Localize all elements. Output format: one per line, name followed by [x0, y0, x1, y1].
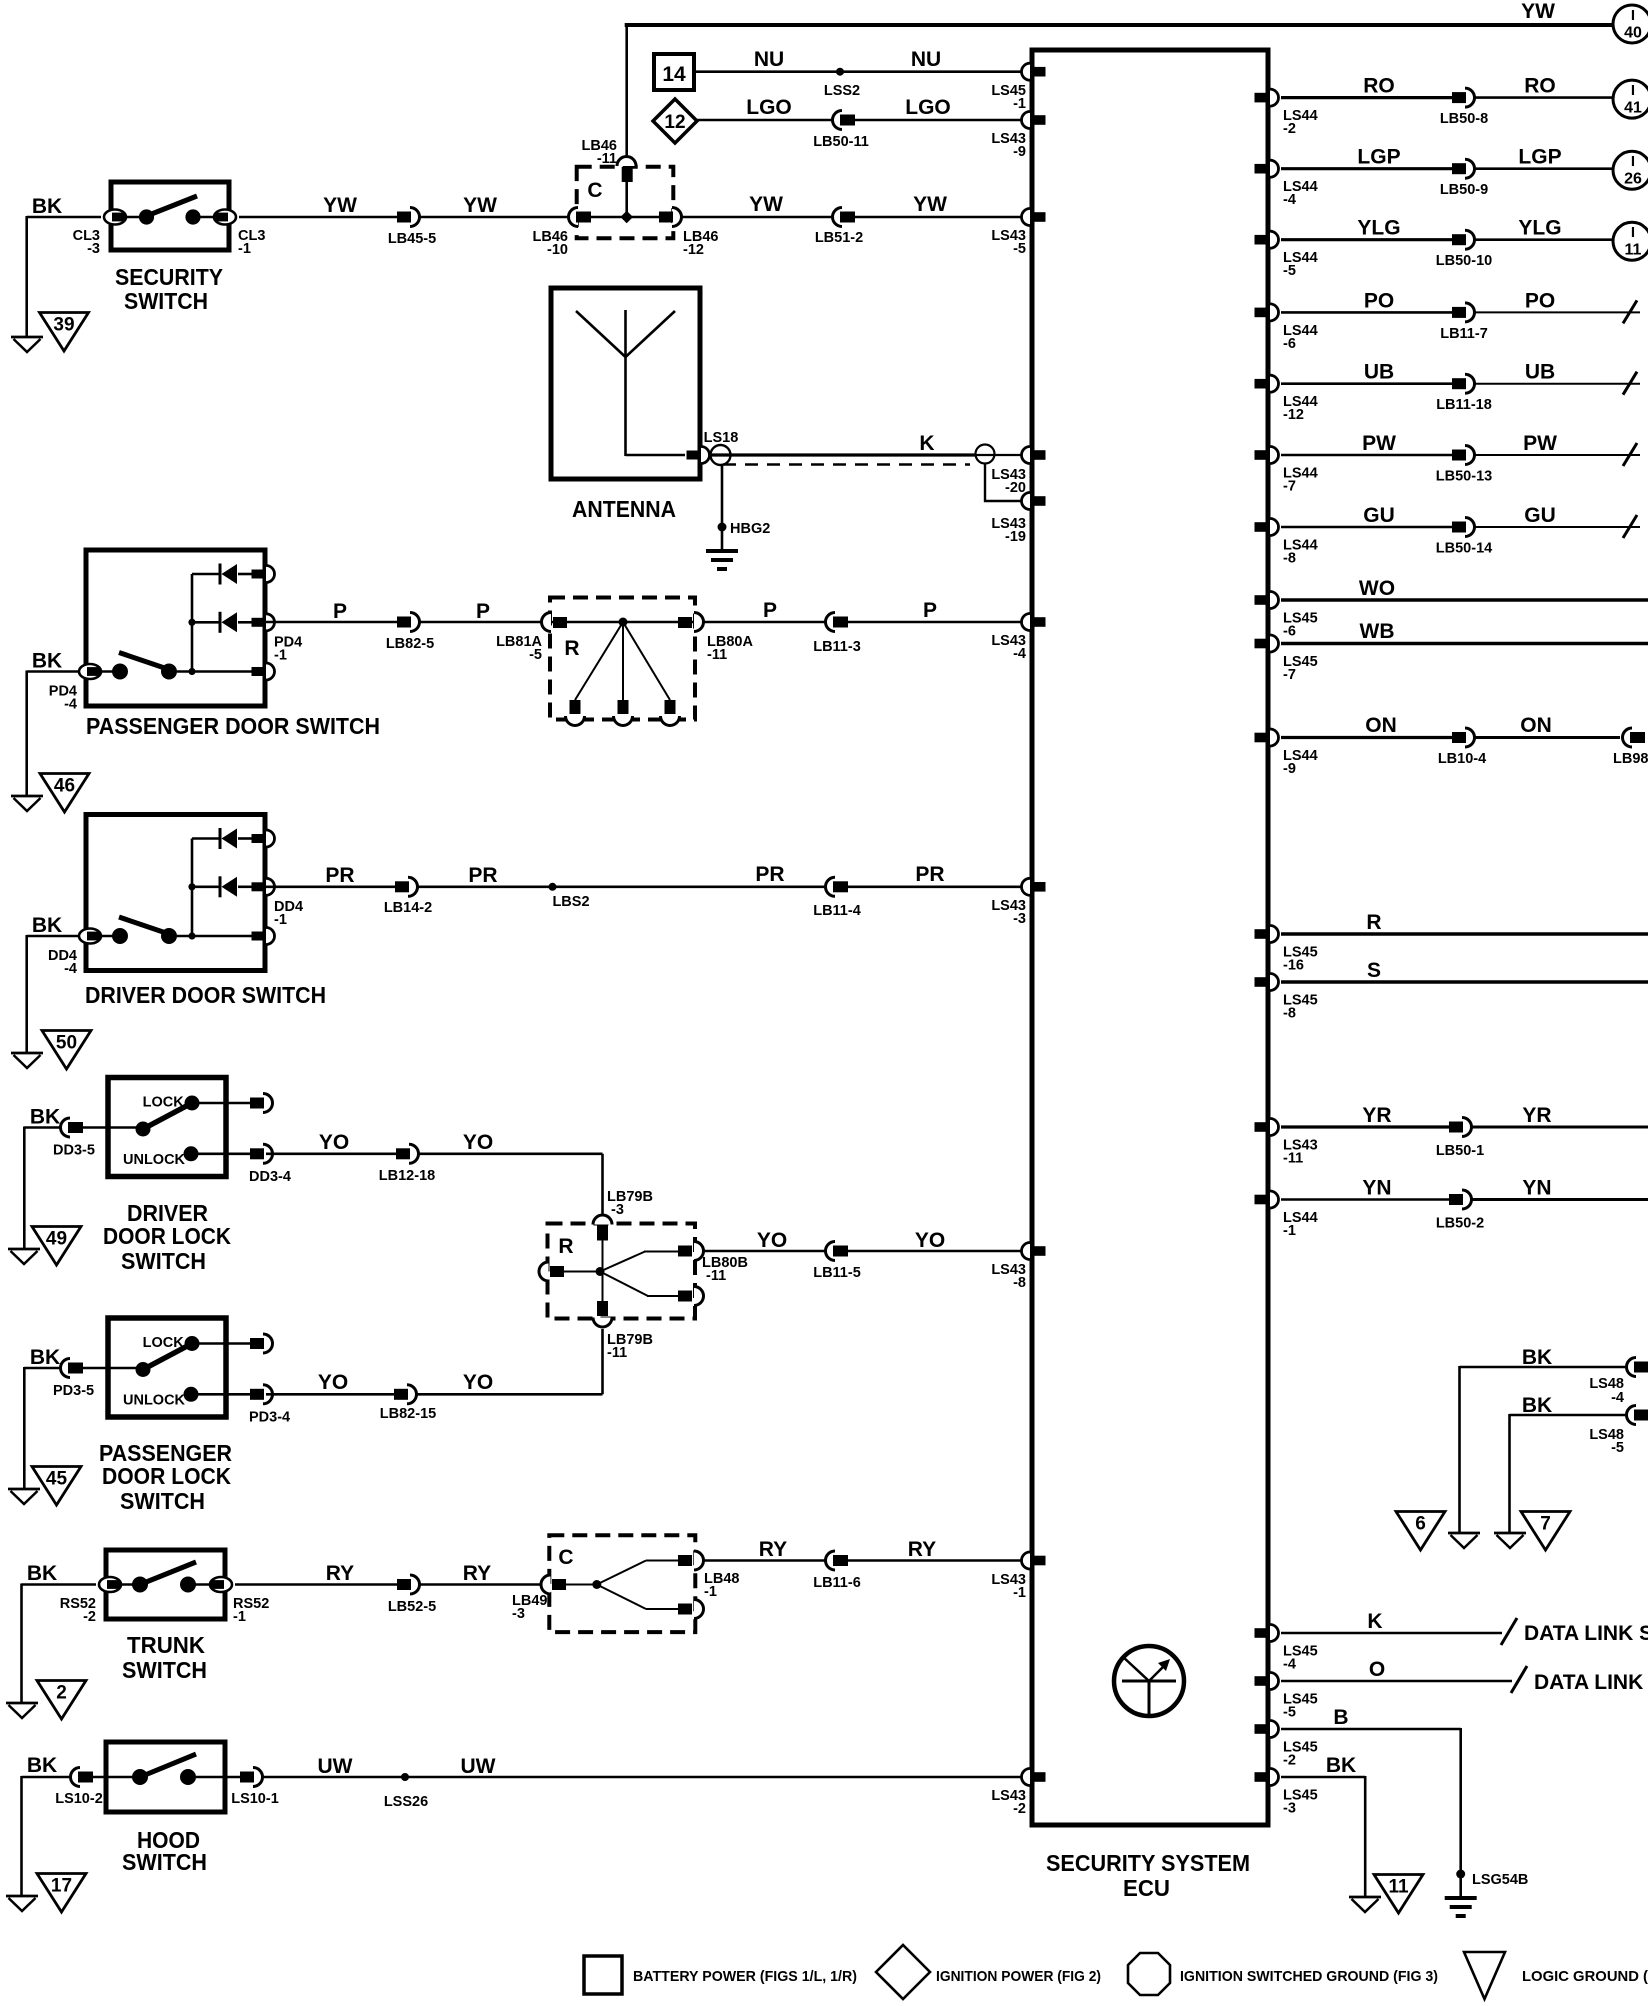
pin LS43-1 — [991, 1552, 1045, 1601]
junction in R box — [619, 618, 628, 627]
pin LS44-5 — [1255, 231, 1318, 279]
svg-text:-3: -3 — [1013, 911, 1026, 927]
pin LS45-1 — [991, 63, 1045, 112]
svg-text:12: 12 — [664, 112, 685, 133]
connector LB82-5 — [386, 613, 434, 653]
legend logic ground text — [1522, 1968, 1648, 1985]
junction in C box — [620, 211, 633, 224]
svg-text:-5: -5 — [529, 647, 542, 663]
connector LB14-2 — [384, 877, 432, 916]
connector LB11-18 — [1436, 374, 1492, 413]
connector LB98 — [1613, 728, 1648, 767]
driver door switch box — [86, 815, 265, 971]
pin LS44-2 — [1255, 89, 1318, 137]
svg-text:14: 14 — [662, 63, 686, 86]
svg-text:SWITCH: SWITCH — [122, 1657, 207, 1683]
splice LSS26 — [384, 1773, 428, 1810]
connector LB50-9 — [1440, 159, 1488, 198]
svg-text:-2: -2 — [1013, 1801, 1026, 1817]
connector LB50-1 — [1436, 1118, 1484, 1160]
wire GU 2 off-page — [1474, 504, 1640, 538]
svg-text:UNLOCK: UNLOCK — [123, 1392, 186, 1408]
svg-text:PO: PO — [1525, 289, 1555, 312]
svg-text:BK: BK — [30, 1106, 60, 1129]
svg-text:UW: UW — [318, 1755, 353, 1778]
svg-text:LBS2: LBS2 — [552, 894, 589, 910]
svg-text:-3: -3 — [512, 1606, 525, 1622]
svg-text:LB11-6: LB11-6 — [813, 1575, 861, 1591]
label HOOD SWITCH — [122, 1827, 207, 1875]
wire PW 2 off-page — [1474, 432, 1640, 466]
svg-text:NU: NU — [754, 48, 784, 71]
wire BK security switch — [27, 195, 101, 337]
diode PD upper — [220, 564, 237, 585]
connector LB10-4 — [1438, 728, 1486, 767]
logic ground 17 — [37, 1874, 86, 1913]
pin LS44-6 — [1255, 304, 1318, 352]
connector LB50-10 — [1436, 230, 1492, 269]
svg-text:BK: BK — [1326, 1754, 1356, 1777]
connector C box LB46 — [577, 167, 674, 239]
legend ignition power text — [936, 1968, 1101, 1985]
legend ignition switched ground text — [1180, 1968, 1438, 1985]
svg-text:LB52-5: LB52-5 — [388, 1599, 436, 1615]
wire RO 2 — [1474, 75, 1613, 98]
svg-text:HBG2: HBG2 — [730, 521, 770, 537]
svg-text:O: O — [1369, 1658, 1385, 1681]
pin LS43-8 — [991, 1243, 1045, 1292]
svg-text:R: R — [564, 637, 579, 660]
wire PR to ECU — [266, 863, 1029, 887]
pin DD4-4 — [48, 929, 101, 978]
diode DD lower — [220, 876, 237, 897]
hood switch box — [92, 1742, 240, 1812]
svg-text:PD3-4: PD3-4 — [249, 1409, 290, 1425]
svg-text:DOOR LOCK: DOOR LOCK — [102, 1463, 231, 1489]
pin PD4-1 — [252, 566, 275, 583]
diode DD upper — [220, 828, 237, 849]
connector LB11-3 — [813, 613, 861, 656]
svg-text:LB11-4: LB11-4 — [813, 903, 861, 919]
svg-text:-1: -1 — [238, 241, 251, 257]
svg-text:LB50-9: LB50-9 — [1440, 182, 1488, 198]
diode PD lower — [220, 612, 237, 633]
pin LS43-20 — [991, 447, 1045, 497]
wire antenna ground HBG2 — [718, 466, 771, 551]
pin LS45-4 — [1255, 1625, 1318, 1673]
svg-text:BK: BK — [27, 1754, 57, 1777]
svg-text:LB50-10: LB50-10 — [1436, 253, 1492, 269]
pin LS43-5 — [991, 209, 1045, 258]
svg-text:-3: -3 — [611, 1202, 624, 1218]
svg-text:I: I — [1631, 82, 1635, 99]
legend ignition switched ground symbol — [1128, 1953, 1170, 1995]
pin LS43-19 — [991, 493, 1045, 546]
splice LBS2 — [549, 883, 590, 910]
svg-text:RY: RY — [326, 1562, 354, 1585]
svg-text:LB12-18: LB12-18 — [379, 1168, 435, 1184]
svg-text:YW: YW — [463, 194, 497, 217]
R box fan wires — [575, 622, 670, 700]
svg-text:41: 41 — [1624, 100, 1642, 117]
svg-text:LB11-7: LB11-7 — [1440, 326, 1488, 342]
svg-text:YW: YW — [749, 193, 783, 216]
ground — [11, 337, 43, 352]
svg-text:-5: -5 — [1611, 1440, 1624, 1456]
pin LS48-4 — [1589, 1358, 1648, 1407]
svg-text:-4: -4 — [64, 697, 77, 713]
pin LS45-8 — [1255, 974, 1318, 1022]
svg-text:DATA LINK S: DATA LINK S — [1534, 1671, 1648, 1694]
pin LS43-2 — [991, 1769, 1045, 1818]
R box bottom pins — [566, 700, 680, 726]
ground — [8, 1249, 40, 1264]
svg-text:UW: UW — [461, 1755, 496, 1778]
svg-text:-3: -3 — [1283, 1801, 1296, 1817]
wire YO driver lock — [266, 1131, 603, 1215]
node LS18 — [704, 430, 739, 465]
svg-text:LGP: LGP — [1357, 146, 1400, 169]
legend ignition power symbol — [876, 1945, 930, 1999]
lock pin — [250, 1094, 273, 1113]
svg-text:DATA LINK SI: DATA LINK SI — [1524, 1622, 1648, 1645]
svg-text:LSS26: LSS26 — [384, 1794, 428, 1810]
pin PD4-4 — [49, 664, 101, 713]
svg-text:-20: -20 — [1005, 480, 1026, 496]
pin LS18 — [687, 447, 710, 464]
svg-text:LOGIC GROUND (: LOGIC GROUND ( — [1522, 1968, 1648, 1985]
svg-text:C: C — [558, 1546, 573, 1569]
wire YW top feed to I-40 — [625, 0, 1613, 161]
pin PD3-5 — [53, 1359, 94, 1400]
connector LB50-2 — [1436, 1190, 1484, 1232]
legend logic ground symbol — [1464, 1952, 1505, 1999]
svg-text:DD3-5: DD3-5 — [53, 1143, 95, 1159]
svg-text:-8: -8 — [1013, 1275, 1026, 1291]
pin LS43-3 — [991, 878, 1045, 927]
svg-text:-11: -11 — [597, 151, 617, 167]
pin LS45-7 — [1255, 635, 1318, 683]
svg-text:-6: -6 — [1283, 336, 1296, 352]
svg-text:2: 2 — [56, 1683, 67, 1704]
pin LS10-2 — [55, 1768, 103, 1808]
pin LS44-4 — [1255, 160, 1318, 208]
wire YW security switch to ECU — [239, 193, 1029, 217]
logic ground 6 — [1396, 1512, 1445, 1551]
svg-text:-9: -9 — [1013, 144, 1026, 160]
svg-text:-12: -12 — [683, 242, 704, 258]
svg-text:P: P — [476, 600, 490, 623]
wire BK trunk — [22, 1562, 97, 1702]
unlock pin PD3-4 — [249, 1385, 290, 1426]
trunk C box internal wires — [566, 1561, 679, 1610]
lock switch box — [77, 1078, 251, 1177]
svg-text:LGO: LGO — [746, 96, 792, 119]
svg-text:YO: YO — [463, 1371, 493, 1394]
connector LB50-11 — [813, 111, 869, 151]
svg-text:BK: BK — [32, 914, 62, 937]
pin LB48-1 — [678, 1551, 739, 1600]
ground — [6, 1703, 38, 1718]
wire WB — [1281, 620, 1648, 644]
svg-text:40: 40 — [1624, 25, 1642, 42]
svg-text:SWITCH: SWITCH — [122, 1849, 207, 1875]
logic ground 49 — [32, 1227, 81, 1266]
pin LS43-4 — [991, 614, 1045, 663]
wire UB 2 off-page — [1474, 361, 1640, 395]
svg-text:YLG: YLG — [1518, 217, 1561, 240]
svg-text:YW: YW — [1521, 0, 1555, 23]
label SECURITY SYSTEM ECU — [1046, 1850, 1250, 1901]
svg-text:PR: PR — [325, 864, 354, 887]
logic ground 45 — [32, 1467, 81, 1506]
lock pin — [250, 1334, 273, 1353]
pin RS52-2 — [60, 1577, 121, 1625]
connector LB11-6 — [813, 1551, 861, 1591]
svg-text:-3: -3 — [87, 241, 100, 257]
ignition switched ground I-41 — [1613, 80, 1648, 118]
svg-text:WO: WO — [1359, 577, 1395, 600]
svg-text:SECURITY: SECURITY — [115, 264, 223, 290]
svg-text:RY: RY — [759, 1538, 787, 1561]
wire YR 2 — [1471, 1104, 1648, 1127]
svg-text:DD3-4: DD3-4 — [249, 1169, 291, 1185]
wire B — [1281, 1706, 1461, 1897]
svg-text:C: C — [587, 179, 602, 202]
svg-text:LB11-3: LB11-3 — [813, 639, 861, 655]
svg-text:LB50-13: LB50-13 — [1436, 469, 1492, 485]
svg-text:-1: -1 — [1013, 1585, 1026, 1601]
svg-text:39: 39 — [53, 315, 74, 336]
svg-text:GU: GU — [1363, 504, 1395, 527]
svg-text:LB50-14: LB50-14 — [1436, 541, 1492, 557]
svg-text:B: B — [1333, 1706, 1348, 1729]
svg-text:-2: -2 — [1283, 121, 1296, 137]
pin CL3-3 — [73, 210, 126, 258]
R box internal wires — [564, 1240, 679, 1301]
svg-text:LB50-8: LB50-8 — [1440, 111, 1488, 127]
wire RY to ECU — [703, 1538, 1029, 1561]
svg-text:BK: BK — [32, 195, 62, 218]
label DRIVER DOOR LOCK SWITCH — [103, 1200, 231, 1274]
svg-text:SWITCH: SWITCH — [124, 288, 208, 314]
ignition switched ground I-11 — [1613, 222, 1648, 260]
svg-text:-12: -12 — [1283, 407, 1304, 423]
svg-text:-2: -2 — [1283, 1753, 1296, 1769]
pin LS45-16 — [1255, 926, 1318, 974]
connector LB52-5 — [388, 1575, 436, 1615]
svg-text:YR: YR — [1362, 1104, 1391, 1127]
ignition switched ground I-40 — [1613, 5, 1648, 43]
svg-text:SWITCH: SWITCH — [120, 1488, 205, 1514]
svg-text:BK: BK — [30, 1346, 60, 1369]
wire BK lock switch — [24, 1106, 62, 1249]
svg-text:LB14-2: LB14-2 — [384, 900, 432, 916]
svg-text:LB45-5: LB45-5 — [388, 231, 436, 247]
pin DD4-1 — [252, 830, 275, 847]
label PASSENGER DOOR SWITCH — [86, 713, 380, 739]
wire YN — [1281, 1177, 1449, 1200]
label SECURITY SWITCH — [115, 264, 223, 314]
ignition switched ground I-26 — [1613, 151, 1648, 189]
connector LB11-7 — [1440, 303, 1488, 342]
svg-text:LB98: LB98 — [1613, 751, 1648, 767]
wire NU from 14 to LS45-1 — [694, 48, 1029, 72]
svg-text:-1: -1 — [1283, 1223, 1296, 1239]
wire LGP — [1281, 146, 1452, 169]
svg-text:P: P — [763, 599, 777, 622]
svg-text:-1: -1 — [274, 912, 287, 928]
svg-text:DOOR LOCK: DOOR LOCK — [103, 1223, 231, 1249]
pin LB80A-11 — [678, 613, 753, 664]
ground LSG54B — [1445, 1898, 1477, 1916]
pin PD4 switch row — [252, 663, 275, 680]
passenger door switch box — [86, 550, 265, 706]
battery power symbol 14 — [654, 54, 694, 90]
svg-text:BK: BK — [27, 1562, 57, 1585]
svg-text:ON: ON — [1365, 714, 1397, 737]
svg-text:PO: PO — [1364, 289, 1394, 312]
wire K to LS43-20 — [975, 454, 1030, 456]
svg-text:BATTERY POWER (FIGS 1/L, 1/R): BATTERY POWER (FIGS 1/L, 1/R) — [633, 1968, 857, 1985]
svg-text:PASSENGER DOOR SWITCH: PASSENGER DOOR SWITCH — [86, 713, 380, 739]
splice LSG54B — [1456, 1870, 1528, 1889]
svg-text:11: 11 — [1625, 242, 1642, 259]
unlock pin DD3-4 — [249, 1144, 291, 1185]
connector LB11-5 — [813, 1242, 861, 1282]
pin RS52-1 — [210, 1577, 269, 1625]
svg-text:SWITCH: SWITCH — [121, 1248, 206, 1274]
svg-text:-9: -9 — [1283, 761, 1296, 777]
connector C box LB48 — [549, 1535, 695, 1632]
svg-text:R: R — [1366, 911, 1381, 934]
logic ground 50 — [42, 1031, 91, 1070]
wire S — [1281, 959, 1648, 982]
wire BK driver door switch — [27, 914, 78, 1052]
svg-text:-8: -8 — [1283, 551, 1296, 567]
svg-text:-1: -1 — [1013, 96, 1026, 112]
ground — [6, 1896, 38, 1911]
svg-text:50: 50 — [56, 1033, 77, 1054]
logic ground 39 — [40, 313, 89, 352]
legend battery power text — [633, 1968, 857, 1985]
svg-text:LB51-2: LB51-2 — [815, 230, 863, 246]
wire K antenna — [710, 432, 975, 455]
svg-text:YLG: YLG — [1357, 217, 1400, 240]
svg-text:45: 45 — [46, 1469, 68, 1490]
label PASSENGER DOOR LOCK SWITCH — [99, 1440, 232, 1514]
svg-text:-11: -11 — [1283, 1151, 1303, 1167]
pin LS48-5 — [1589, 1406, 1648, 1457]
svg-text:BK: BK — [1522, 1346, 1552, 1369]
svg-text:I: I — [1631, 7, 1635, 24]
svg-text:PR: PR — [915, 863, 944, 886]
svg-text:-1: -1 — [233, 1609, 246, 1625]
svg-text:LS10-1: LS10-1 — [231, 1791, 279, 1807]
pin LB79B-11 — [593, 1301, 653, 1361]
ground — [11, 796, 43, 811]
svg-text:-11: -11 — [607, 1345, 627, 1361]
svg-text:LB50-11: LB50-11 — [813, 134, 869, 150]
svg-text:LSG54B: LSG54B — [1472, 1872, 1528, 1888]
pin LB49-3 — [512, 1575, 566, 1622]
pin LS45-2 — [1255, 1721, 1318, 1769]
svg-text:K: K — [1367, 1610, 1382, 1633]
svg-text:K: K — [919, 432, 934, 455]
wire YLG — [1281, 217, 1452, 240]
svg-text:NU: NU — [911, 48, 941, 71]
wire YO passenger lock — [266, 1329, 603, 1394]
svg-text:-7: -7 — [1283, 667, 1296, 683]
wire LGP 2 — [1474, 146, 1613, 169]
wire YR — [1281, 1104, 1449, 1127]
svg-text:ON: ON — [1520, 714, 1552, 737]
pin LS44-9 — [1255, 729, 1318, 777]
svg-text:-11: -11 — [707, 647, 727, 663]
svg-text:LB82-5: LB82-5 — [386, 636, 434, 652]
node on K wire — [976, 445, 995, 464]
svg-text:-4: -4 — [1283, 192, 1296, 208]
svg-text:-5: -5 — [1283, 263, 1296, 279]
svg-text:6: 6 — [1415, 1514, 1426, 1535]
splice LSS2 — [824, 68, 860, 99]
svg-text:-4: -4 — [64, 961, 77, 977]
wire YN 2 — [1471, 1177, 1648, 1200]
svg-text:RO: RO — [1524, 75, 1556, 98]
svg-text:YO: YO — [319, 1131, 349, 1154]
connector LB12-18 — [379, 1144, 435, 1184]
wire WO — [1281, 577, 1648, 600]
svg-text:BK: BK — [1522, 1394, 1552, 1417]
svg-text:-11: -11 — [706, 1268, 726, 1284]
svg-text:LB11-5: LB11-5 — [813, 1265, 861, 1281]
svg-text:YO: YO — [318, 1371, 348, 1394]
pin LS43-11 — [1255, 1119, 1318, 1167]
ground — [1448, 1533, 1480, 1548]
svg-text:LGP: LGP — [1518, 146, 1561, 169]
svg-text:IGNITION SWITCHED GROUND (FIG: IGNITION SWITCHED GROUND (FIG 3) — [1180, 1968, 1438, 1985]
svg-text:-1: -1 — [704, 1584, 717, 1600]
svg-text:-4: -4 — [1283, 1657, 1296, 1673]
svg-text:UB: UB — [1525, 361, 1555, 384]
svg-text:-6: -6 — [1283, 624, 1296, 640]
wire PO — [1281, 289, 1452, 312]
lower pin of trunk C box — [678, 1600, 704, 1619]
svg-text:I: I — [1631, 153, 1635, 170]
wire RY trunk to C box — [235, 1562, 542, 1585]
svg-text:YN: YN — [1522, 1177, 1551, 1200]
svg-text:17: 17 — [51, 1876, 72, 1897]
antenna box — [551, 288, 700, 479]
logic ground 11 — [1374, 1875, 1423, 1914]
connector LB50-14 — [1436, 518, 1492, 557]
wire LGO — [697, 96, 1029, 120]
pin LS43-9 — [991, 112, 1045, 161]
svg-text:LS18: LS18 — [704, 430, 739, 446]
svg-text:11: 11 — [1388, 1877, 1409, 1898]
svg-text:GU: GU — [1524, 504, 1556, 527]
svg-text:RY: RY — [463, 1562, 491, 1585]
transistor U1 inside ECU — [1114, 1646, 1184, 1716]
pin LB46-11 — [582, 138, 636, 182]
wire BK hood — [22, 1754, 70, 1895]
wire shield to LS43-19 — [985, 464, 1029, 501]
pin DD3-5 — [53, 1118, 95, 1159]
wire UB — [1281, 361, 1452, 384]
pin LS44-1 — [1255, 1191, 1318, 1239]
svg-text:-16: -16 — [1283, 958, 1304, 974]
ground — [1349, 1897, 1381, 1912]
